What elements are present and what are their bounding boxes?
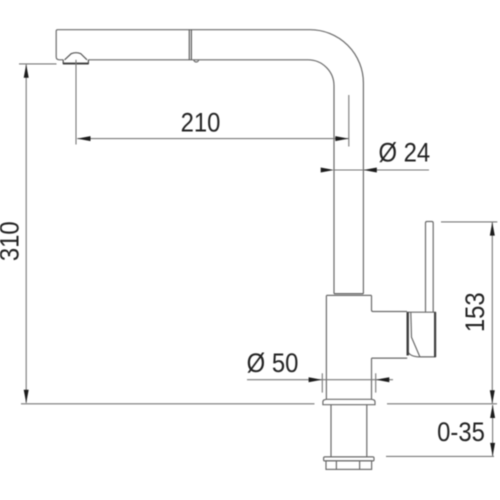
countertop reference line left xyxy=(21,403,315,405)
dimension & reference lines xyxy=(19,60,497,457)
extension line aerator left xyxy=(19,63,57,65)
arrow 310 down xyxy=(24,390,29,403)
aerator lip xyxy=(63,60,88,64)
svg-text:Ø 24: Ø 24 xyxy=(378,138,430,167)
body right edge upper xyxy=(372,295,374,311)
handle boss top xyxy=(373,311,407,313)
base flange xyxy=(323,399,375,404)
extension line pipe axis xyxy=(348,95,350,147)
body right edge lower xyxy=(371,358,373,399)
lever lower profile xyxy=(411,312,420,357)
locknut hex facet line right xyxy=(359,461,361,470)
spout top & left edge xyxy=(56,30,310,60)
extension line dia50 right xyxy=(375,373,377,392)
arrow dia50 left xyxy=(309,377,322,382)
svg-text:310: 310 xyxy=(0,221,25,261)
arrow 153 up xyxy=(490,222,495,235)
outer bend curve xyxy=(310,30,363,294)
body top shoulder xyxy=(326,294,371,296)
lower reference line xyxy=(386,455,494,457)
inner bend curve xyxy=(308,60,334,294)
locknut top plate xyxy=(324,457,374,461)
shank right edge xyxy=(366,405,368,457)
arrow 210 right xyxy=(335,136,348,141)
arrow 0-35 down xyxy=(490,443,495,456)
dimension line 153 xyxy=(491,223,493,404)
aerator dome xyxy=(65,53,87,60)
arrow 0-35 up xyxy=(490,405,495,418)
svg-text:153: 153 xyxy=(461,292,490,332)
tube to body joint line xyxy=(334,293,363,295)
handle boss bottom xyxy=(372,357,408,359)
arrow 210 left xyxy=(77,136,90,141)
arrowheads xyxy=(24,64,495,456)
spout bottom edge right of aerator xyxy=(88,59,308,61)
handle cap thick side edges xyxy=(408,312,435,357)
svg-text:0-35: 0-35 xyxy=(437,418,485,447)
svg-text:Ø 50: Ø 50 xyxy=(247,349,299,378)
locknut hex facet line left xyxy=(335,461,337,470)
body left edge xyxy=(325,295,327,399)
arrow 153 down xyxy=(490,390,495,403)
body bottom edge xyxy=(326,398,371,400)
spray-head joint double line xyxy=(189,30,363,294)
handle cap bottom-left arc xyxy=(408,351,420,357)
extension line lever top xyxy=(441,221,497,223)
svg-text:210: 210 xyxy=(181,108,221,137)
spout bottom notch xyxy=(194,60,199,62)
dimension line dia 50 xyxy=(247,379,393,381)
arrow dia24 left xyxy=(321,168,334,173)
extension line dia50 left xyxy=(321,373,323,392)
dimension line 0-35 xyxy=(492,405,494,456)
aerator lip bottom heavy edge xyxy=(63,63,89,65)
dimension line 310 xyxy=(25,65,27,403)
lever bar xyxy=(426,222,434,313)
shank left edge xyxy=(330,405,332,457)
handle cap bottom xyxy=(420,356,436,358)
countertop reference line right xyxy=(387,403,497,405)
locknut hex body xyxy=(326,461,372,470)
handle cap top xyxy=(407,311,436,313)
arrow dia24 right xyxy=(364,168,377,173)
extension line aerator center vertical xyxy=(75,60,77,145)
arrow dia50 right xyxy=(376,377,389,382)
dimension line 210 xyxy=(77,138,348,140)
dimension line dia 24 xyxy=(334,169,429,171)
arrow 310 up xyxy=(24,64,29,77)
